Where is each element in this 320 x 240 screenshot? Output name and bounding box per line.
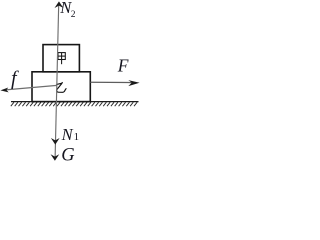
label N1 <box>61 125 80 144</box>
svg-text:G: G <box>61 146 74 165</box>
applied force arrow F (right) <box>90 81 135 83</box>
force arrow G (down) head <box>51 154 60 161</box>
svg-text:F: F <box>117 56 129 76</box>
svg-text:2: 2 <box>71 10 76 20</box>
label 乙 (glyph drawn) <box>56 82 66 92</box>
ground <box>11 102 139 107</box>
force arrow N2 (up) head <box>55 1 64 8</box>
vertical axis wire <box>55 4 59 159</box>
label N2 <box>59 0 76 20</box>
block B (乙) lower <box>32 72 90 102</box>
block A (甲) upper <box>43 45 79 72</box>
force arrow N1 (down) head <box>51 138 60 145</box>
label 甲 (glyph drawn) <box>58 53 65 65</box>
friction arrow f (left) <box>4 85 57 90</box>
svg-text:N: N <box>61 125 74 144</box>
svg-text:1: 1 <box>74 131 80 143</box>
